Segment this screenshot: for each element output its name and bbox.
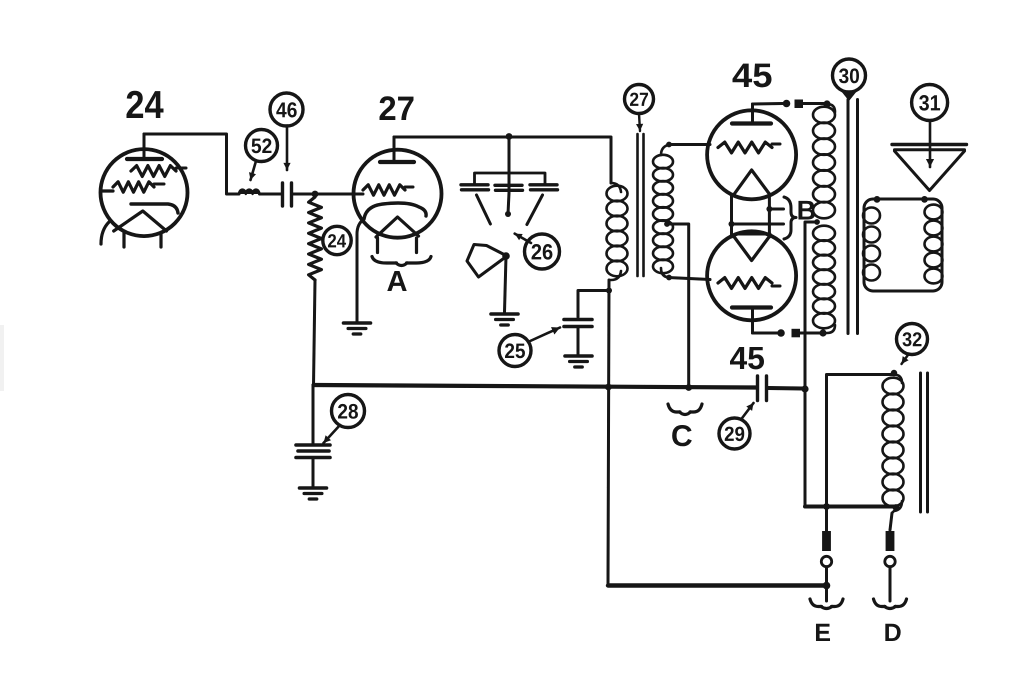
condenser 26 left section plates <box>461 185 489 190</box>
label B <box>798 201 814 220</box>
speaker unit frame <box>864 196 942 291</box>
callout 46 <box>270 93 303 170</box>
speaker cone rim (double line) <box>892 145 967 150</box>
tube V3 plate bar <box>732 104 771 124</box>
condenser 26 middle section plates <box>495 185 523 190</box>
condenser 26 right rotor lead <box>527 195 543 225</box>
wire T1 secondary centre tap to C bias <box>664 221 689 386</box>
bottom supply line under choke <box>805 503 899 511</box>
lead cup D <box>874 599 907 609</box>
lead cup E <box>810 599 843 609</box>
plug terminal E <box>821 531 831 601</box>
tube V2 plate bar and lead <box>380 137 414 162</box>
wire V1 plate to coupling network <box>144 134 239 194</box>
bypass condenser block 26, stator bus <box>475 137 546 194</box>
tube V4 filament <box>734 237 770 261</box>
bypass capacitor C25 plates <box>564 320 592 327</box>
callout 24 (resistor) <box>323 226 351 254</box>
label C <box>672 425 692 446</box>
callout 52 <box>246 130 278 181</box>
wire V3 plate to output transformer <box>753 100 831 109</box>
callout 26 <box>515 234 560 269</box>
wire rotor to ground <box>505 256 507 312</box>
output transformer T2 centre tap <box>801 219 819 506</box>
junction C bias on rail <box>685 384 692 391</box>
wire T1 primary bottom down to terminal E feed <box>605 280 612 585</box>
wire T1 secondary bottom to V4 grid <box>666 275 710 281</box>
label 27 (tube V2 type) <box>380 96 414 120</box>
wire R24 down to B- rail <box>314 280 316 386</box>
speaker voice coil left winding <box>863 208 880 281</box>
filament leg right between V3 V4 <box>768 194 771 237</box>
tube V2 cathode lead to ground <box>357 219 364 321</box>
condenser 26 right section plates <box>530 185 558 190</box>
coupling capacitor C46 plates <box>283 183 292 206</box>
interstage transformer T1 primary winding <box>607 183 628 280</box>
bias rail wire (right section) <box>768 386 805 391</box>
tube V1 base pins <box>101 222 161 247</box>
tube V2 heater filament <box>376 217 419 237</box>
wire C25 to ground <box>577 327 580 356</box>
tube V2 heater pins <box>378 238 417 253</box>
tube V1 filament <box>114 211 167 231</box>
output transformer T2 primary upper half <box>813 104 835 218</box>
plug terminal D <box>885 531 895 601</box>
callout 28 <box>324 395 365 444</box>
interstage transformer T1 core <box>638 134 644 276</box>
label D <box>885 624 900 641</box>
ground under condenser 26 <box>491 314 518 325</box>
wire V4 plate to output transformer <box>753 329 827 338</box>
tube V1 screen-grid zigzag <box>131 166 186 177</box>
tube V2 grid zigzag <box>363 185 413 195</box>
interstage transformer T1 secondary winding <box>653 145 673 278</box>
bias rail wire (left section) <box>314 385 757 388</box>
tube V1 top-cap bar <box>127 134 162 159</box>
tube V3 type 45 upper, envelope <box>707 110 796 199</box>
label 45 upper <box>733 64 772 88</box>
grid resistor R24 (circled 24) <box>309 197 322 280</box>
tube V4 grid zigzag <box>718 278 780 289</box>
rotor vane plate (moving element) <box>467 245 510 278</box>
tube V3 filament <box>734 170 770 195</box>
filament leg left between V3 V4 <box>730 195 733 238</box>
label 24 (tube V1 type) <box>126 91 163 118</box>
speaker cone <box>895 151 965 191</box>
speaker voice coil right winding <box>925 205 943 284</box>
condenser 26 middle rotor lead <box>505 193 511 217</box>
bottom supply rail to terminal E <box>608 582 830 590</box>
callout 27 (transformer) <box>625 85 654 132</box>
faint scan mark at left edge <box>0 325 4 391</box>
wire B+ branch to bypass capacitor C25 <box>578 288 612 318</box>
filament tie upper to brace B <box>766 206 783 212</box>
tube V2 cathode dome <box>364 203 426 219</box>
output transformer T2 primary lower half <box>813 226 835 333</box>
wire choke bottom to plug D <box>890 513 892 530</box>
choke T3 core <box>921 373 928 512</box>
tube V4 plate bar <box>732 308 771 334</box>
label A <box>387 271 406 291</box>
ground under C25 <box>565 356 592 367</box>
wire V2 plate to interstage transformer / cap bank <box>394 133 611 183</box>
label 45 lower <box>730 347 764 369</box>
tube V2 type 27 (1st AF), envelope <box>354 150 442 238</box>
tube V1 cathode bar <box>131 204 178 213</box>
output transformer T2 core <box>848 100 858 334</box>
tube V3 grid zigzag <box>718 142 780 153</box>
filter capacitor C28 plates <box>296 386 330 487</box>
wire C46 to V2 grid <box>292 191 364 198</box>
callout 29 <box>719 403 754 449</box>
filament tie short <box>739 233 770 236</box>
choke T3 winding <box>883 375 904 514</box>
condenser 26 left rotor lead <box>477 195 491 224</box>
callout 25 <box>499 327 560 366</box>
brace B (filament supply) <box>784 197 796 239</box>
ground under tube V2 cathode <box>344 323 371 334</box>
tube V1 type 24 (detector), envelope <box>101 149 188 236</box>
callout 32 <box>897 324 928 365</box>
wire choke top loop <box>827 370 898 531</box>
filament tie lower to brace B <box>729 221 784 227</box>
callout 30 <box>833 59 866 101</box>
wire T1 secondary top to V3 grid <box>666 142 710 148</box>
tube V4 type 45 lower, envelope <box>707 231 796 320</box>
tube V1 control-grid zigzag <box>102 182 164 192</box>
ground under C28 <box>300 488 327 499</box>
lead cup C (bias battery tap) <box>668 404 702 415</box>
capacitor C29 plates <box>758 376 767 401</box>
callout 31 <box>912 85 948 168</box>
label E <box>816 624 830 641</box>
grid-leak resistor (item 52) on wire <box>239 190 282 194</box>
brace A under tube V2 heater <box>372 257 431 266</box>
